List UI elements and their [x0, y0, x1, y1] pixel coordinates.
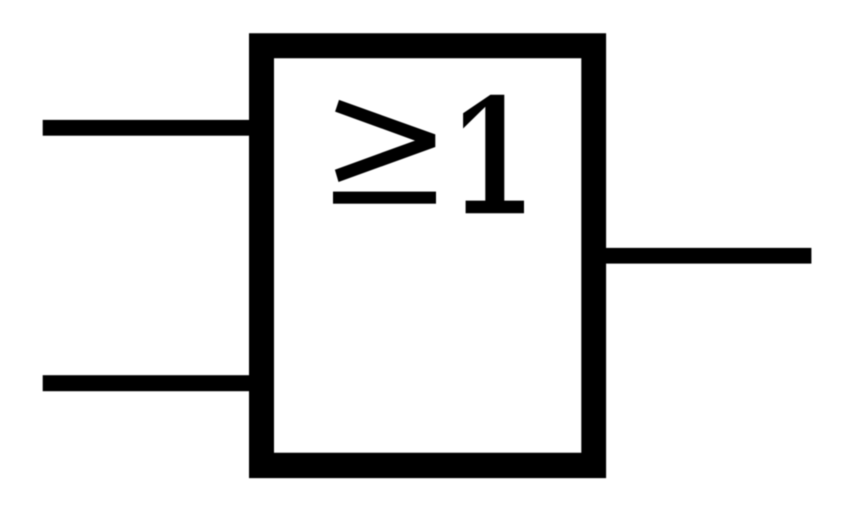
wire output (right horizontal output lead) — [594, 248, 811, 264]
wire input B (bottom-left horizontal input lead) — [43, 375, 263, 391]
value label ≥1 : greater-or-equal sign — [333, 100, 436, 204]
value label ≥1 : digit one — [463, 95, 524, 213]
wire input A (top-left horizontal input lead) — [43, 120, 263, 136]
OR gate body (IEC rectangular symbol outline) — [249, 33, 606, 478]
